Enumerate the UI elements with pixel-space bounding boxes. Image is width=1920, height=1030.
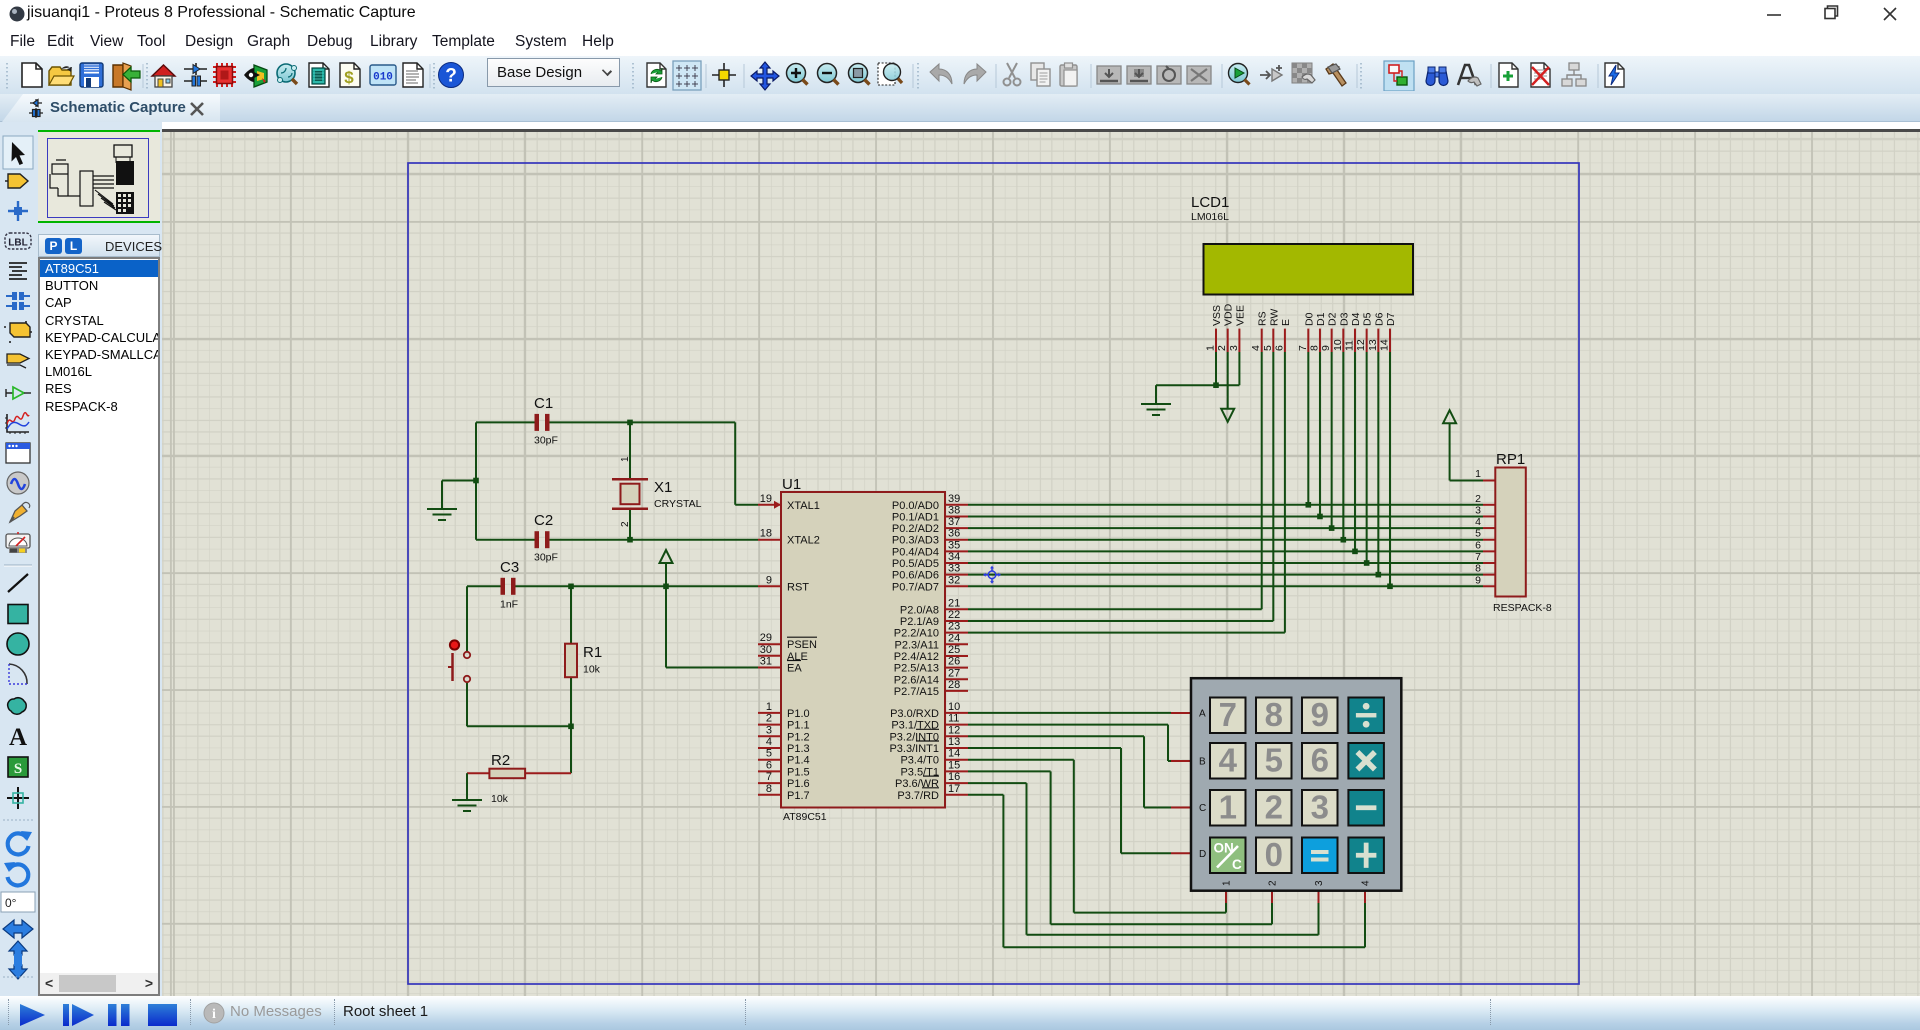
svg-text:38: 38 xyxy=(948,504,960,516)
svg-text:P2.3/A11: P2.3/A11 xyxy=(895,639,939,651)
svg-text:P1.5: P1.5 xyxy=(787,766,810,778)
svg-text:28: 28 xyxy=(948,679,960,691)
svg-text:D4: D4 xyxy=(1350,312,1362,326)
svg-text:A: A xyxy=(1199,709,1206,720)
svg-text:C1: C1 xyxy=(534,395,553,412)
svg-text:P3.0/RXD: P3.0/RXD xyxy=(890,708,939,720)
svg-text:P2.1/A9: P2.1/A9 xyxy=(900,616,939,628)
svg-text:LCD1: LCD1 xyxy=(1191,194,1229,211)
svg-text:1nF: 1nF xyxy=(500,598,518,610)
svg-text:P1.2: P1.2 xyxy=(787,731,810,743)
svg-text:P0.7/AD7: P0.7/AD7 xyxy=(892,581,939,593)
svg-text:LBL: LBL xyxy=(8,238,27,249)
svg-text:4: 4 xyxy=(1475,516,1481,528)
svg-text:35: 35 xyxy=(948,539,960,551)
svg-text:E: E xyxy=(1280,319,1292,326)
svg-text:P0.2/AD2: P0.2/AD2 xyxy=(892,523,939,535)
svg-text:30: 30 xyxy=(760,644,772,656)
svg-text:3: 3 xyxy=(1475,504,1481,516)
svg-text:39: 39 xyxy=(948,493,960,505)
svg-text:33: 33 xyxy=(948,563,960,575)
svg-text:32: 32 xyxy=(948,574,960,586)
svg-text:P2.0/A8: P2.0/A8 xyxy=(900,604,939,616)
svg-text:31: 31 xyxy=(760,656,772,668)
svg-text:5: 5 xyxy=(766,748,772,760)
svg-text:U1: U1 xyxy=(782,476,801,493)
svg-text:CRYSTAL: CRYSTAL xyxy=(654,498,702,510)
svg-text:12: 12 xyxy=(1355,339,1367,351)
svg-text:RESPACK-8: RESPACK-8 xyxy=(1493,602,1552,614)
svg-text:P0.6/AD6: P0.6/AD6 xyxy=(892,570,939,582)
svg-text:P3.4/T0: P3.4/T0 xyxy=(900,755,939,767)
svg-text:3: 3 xyxy=(1311,789,1329,826)
svg-text:13: 13 xyxy=(1367,339,1379,351)
svg-text:D: D xyxy=(1199,849,1206,860)
svg-text:15: 15 xyxy=(948,759,960,771)
svg-text:X1: X1 xyxy=(654,479,672,496)
svg-text:19: 19 xyxy=(760,493,772,505)
svg-text:C: C xyxy=(1199,803,1206,814)
svg-text:24: 24 xyxy=(948,632,960,644)
svg-text:12: 12 xyxy=(948,724,960,736)
svg-text:C3: C3 xyxy=(500,559,519,576)
svg-text:30pF: 30pF xyxy=(534,552,558,564)
svg-text:10k: 10k xyxy=(583,664,601,676)
svg-text:7: 7 xyxy=(1219,696,1237,733)
svg-text:i: i xyxy=(212,1007,216,1022)
svg-text:6: 6 xyxy=(1311,742,1329,779)
svg-text:VDD: VDD xyxy=(1223,303,1235,326)
svg-text:5: 5 xyxy=(1262,345,1274,351)
svg-text:P1.0: P1.0 xyxy=(787,708,810,720)
svg-text:4: 4 xyxy=(1250,345,1262,351)
svg-text:S: S xyxy=(14,761,22,777)
svg-text:RP1: RP1 xyxy=(1496,451,1525,468)
svg-text:23: 23 xyxy=(948,621,960,633)
svg-text:6: 6 xyxy=(1273,345,1285,351)
svg-text:$: $ xyxy=(344,68,354,87)
svg-text:7: 7 xyxy=(766,771,772,783)
svg-text:XTAL1: XTAL1 xyxy=(787,500,820,512)
svg-text:P0.3/AD3: P0.3/AD3 xyxy=(892,535,939,547)
svg-text:D1: D1 xyxy=(1315,312,1327,326)
svg-text:1: 1 xyxy=(620,456,631,462)
svg-text:1: 1 xyxy=(1219,789,1237,826)
svg-text:14: 14 xyxy=(1378,339,1390,351)
svg-text:18: 18 xyxy=(760,528,772,540)
svg-text:D0: D0 xyxy=(1303,312,1315,326)
svg-text:21: 21 xyxy=(948,597,960,609)
svg-text:R2: R2 xyxy=(491,752,510,769)
svg-text:4: 4 xyxy=(1219,742,1238,779)
svg-text:1: 1 xyxy=(1205,345,1217,351)
svg-text:17: 17 xyxy=(948,783,960,795)
svg-text:P0.0/AD0: P0.0/AD0 xyxy=(892,500,939,512)
svg-text:10: 10 xyxy=(948,701,960,713)
svg-text:4: 4 xyxy=(766,736,772,748)
svg-text:B: B xyxy=(1199,757,1206,768)
svg-text:5: 5 xyxy=(1475,528,1481,540)
svg-text:?: ? xyxy=(445,66,457,87)
svg-text:6: 6 xyxy=(766,759,772,771)
svg-text:9: 9 xyxy=(1320,345,1332,351)
svg-text:C2: C2 xyxy=(534,512,553,529)
svg-text:30pF: 30pF xyxy=(534,434,558,446)
svg-text:26: 26 xyxy=(948,656,960,668)
svg-text:P1.3: P1.3 xyxy=(787,743,810,755)
svg-text:AT89C51: AT89C51 xyxy=(783,811,827,823)
svg-text:P0.4/AD4: P0.4/AD4 xyxy=(892,546,939,558)
svg-text:3: 3 xyxy=(766,724,772,736)
svg-text:P2.2/A10: P2.2/A10 xyxy=(894,628,939,640)
svg-text:1: 1 xyxy=(766,701,772,713)
svg-text:P3.3/INT1: P3.3/INT1 xyxy=(889,743,939,755)
svg-text:13: 13 xyxy=(948,736,960,748)
svg-text:D7: D7 xyxy=(1385,312,1397,326)
svg-text:9: 9 xyxy=(766,574,772,586)
svg-text:6: 6 xyxy=(1475,539,1481,551)
svg-text:RST: RST xyxy=(787,581,809,593)
svg-text:0°: 0° xyxy=(5,896,17,910)
svg-text:XTAL2: XTAL2 xyxy=(787,535,820,547)
svg-text:C: C xyxy=(1232,857,1242,872)
svg-text:010: 010 xyxy=(373,72,393,84)
svg-text:2: 2 xyxy=(766,713,772,725)
svg-text:2: 2 xyxy=(1268,880,1279,886)
svg-text:9: 9 xyxy=(1475,574,1481,586)
svg-text:37: 37 xyxy=(948,516,960,528)
svg-text:0: 0 xyxy=(1265,836,1283,873)
svg-text:P2.5/A13: P2.5/A13 xyxy=(894,663,939,675)
svg-text:7: 7 xyxy=(1475,551,1481,563)
svg-text:3: 3 xyxy=(1228,345,1240,351)
svg-text:D5: D5 xyxy=(1362,312,1374,326)
svg-text:RW: RW xyxy=(1268,309,1280,326)
svg-text:1: 1 xyxy=(1475,468,1481,480)
svg-text:5: 5 xyxy=(1265,742,1283,779)
svg-text:11: 11 xyxy=(948,713,959,725)
svg-text:A: A xyxy=(9,724,27,751)
svg-text:8: 8 xyxy=(1475,563,1481,575)
svg-text:P3.7/RD: P3.7/RD xyxy=(897,790,939,802)
svg-text:P1.6: P1.6 xyxy=(787,778,810,790)
svg-text:8: 8 xyxy=(766,783,772,795)
svg-text:VSS: VSS xyxy=(1211,305,1223,326)
svg-text:10: 10 xyxy=(1332,339,1344,351)
svg-text:11: 11 xyxy=(1343,340,1355,351)
svg-text:22: 22 xyxy=(948,609,960,621)
svg-text:3: 3 xyxy=(1314,880,1325,886)
svg-text:27: 27 xyxy=(948,667,960,679)
svg-text:2: 2 xyxy=(620,521,631,527)
svg-text:14: 14 xyxy=(948,748,960,760)
svg-text:10k: 10k xyxy=(491,793,509,805)
svg-text:D3: D3 xyxy=(1338,312,1350,326)
svg-text:P1.7: P1.7 xyxy=(787,790,810,802)
svg-text:D2: D2 xyxy=(1327,312,1339,326)
svg-text:2: 2 xyxy=(1265,789,1283,826)
svg-text:P2.6/A14: P2.6/A14 xyxy=(894,674,939,686)
svg-text:2: 2 xyxy=(1216,345,1228,351)
svg-text:1: 1 xyxy=(1222,880,1233,886)
svg-text:D6: D6 xyxy=(1373,312,1385,326)
svg-text:LM016L: LM016L xyxy=(1191,211,1229,223)
svg-text:8: 8 xyxy=(1265,696,1283,733)
svg-text:P0.5/AD5: P0.5/AD5 xyxy=(892,558,939,570)
svg-text:29: 29 xyxy=(760,632,772,644)
svg-text:2: 2 xyxy=(1475,493,1481,505)
svg-text:16: 16 xyxy=(948,771,960,783)
svg-text:EA: EA xyxy=(787,663,802,675)
svg-text:36: 36 xyxy=(948,528,960,540)
svg-text:PSEN: PSEN xyxy=(787,639,817,651)
svg-text:R1: R1 xyxy=(583,644,602,661)
svg-text:P1.1: P1.1 xyxy=(787,720,810,732)
svg-text:P2.7/A15: P2.7/A15 xyxy=(894,686,939,698)
svg-text:P0.1/AD1: P0.1/AD1 xyxy=(892,511,939,523)
svg-text:RS: RS xyxy=(1257,311,1269,326)
svg-text:P1.4: P1.4 xyxy=(787,755,810,767)
svg-text:9: 9 xyxy=(1311,696,1329,733)
svg-text:VEE: VEE xyxy=(1234,305,1246,326)
svg-text:25: 25 xyxy=(948,644,960,656)
svg-text:8: 8 xyxy=(1308,345,1320,351)
svg-text:7: 7 xyxy=(1297,345,1309,351)
svg-text:4: 4 xyxy=(1361,880,1372,886)
svg-text:P2.4/A12: P2.4/A12 xyxy=(894,651,939,663)
svg-text:34: 34 xyxy=(948,551,960,563)
